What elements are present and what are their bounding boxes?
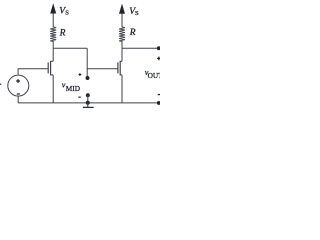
wire source lead 2 <box>121 75 123 103</box>
wire gate 1 from input source <box>18 69 48 76</box>
wire drain lead 1 <box>52 41 54 61</box>
minus sign vOUT <box>158 94 161 96</box>
cropped left label fragment <box>0 84 1 85</box>
node vOUT plus terminal <box>157 46 161 50</box>
wire branch 1 (drain to vMID column) <box>53 47 87 49</box>
wire minus stub <box>87 95 89 103</box>
node vMID minus terminal <box>86 93 90 97</box>
svg-text:OUT: OUT <box>148 71 160 80</box>
transistor M2 <box>118 61 122 75</box>
plus sign vMID <box>79 73 82 76</box>
node vOUT minus terminal <box>157 101 161 105</box>
label vMID <box>62 80 80 93</box>
wire source lead 1 <box>52 75 54 103</box>
node ground junction <box>86 101 90 105</box>
wire drain lead 2 <box>121 41 123 61</box>
svg-text:R: R <box>59 29 66 39</box>
svg-text:S: S <box>65 9 69 16</box>
label VS1 <box>59 6 69 17</box>
resistor R2 <box>119 27 125 42</box>
resistor R1 <box>50 27 56 42</box>
wire vMID feed down <box>86 48 88 78</box>
minus sign vMID <box>78 96 81 98</box>
label VS2 <box>129 6 139 17</box>
wire bottom rail <box>18 102 159 104</box>
plus sign vOUT <box>157 57 161 61</box>
svg-text:MID: MID <box>66 84 80 93</box>
transistor M1 <box>48 61 53 75</box>
wire gate 2 from vMID node <box>87 68 118 70</box>
wire source bottom stub <box>17 96 19 103</box>
svg-text:S: S <box>135 10 139 17</box>
minus sign in source <box>17 93 20 95</box>
supply arrow VS1 <box>50 3 56 27</box>
ground <box>83 103 94 108</box>
wire branch 2 (drain to vOUT) <box>122 47 159 49</box>
voltage source vIN <box>8 75 29 96</box>
plus sign in source <box>16 79 20 83</box>
supply arrow VS2 <box>119 4 125 28</box>
node vMID plus terminal <box>86 76 90 80</box>
label vOUT <box>145 68 163 80</box>
svg-text:R: R <box>129 28 136 38</box>
